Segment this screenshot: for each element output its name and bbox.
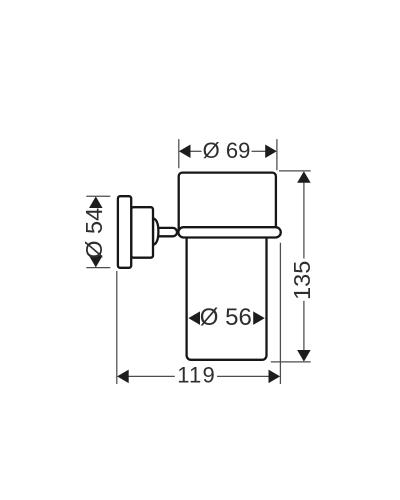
- svg-text:119: 119: [177, 362, 216, 387]
- svg-text:135: 135: [289, 261, 315, 300]
- svg-text:Ø 54: Ø 54: [81, 208, 107, 259]
- svg-text:Ø 69: Ø 69: [203, 138, 251, 163]
- svg-text:Ø 56: Ø 56: [200, 304, 252, 331]
